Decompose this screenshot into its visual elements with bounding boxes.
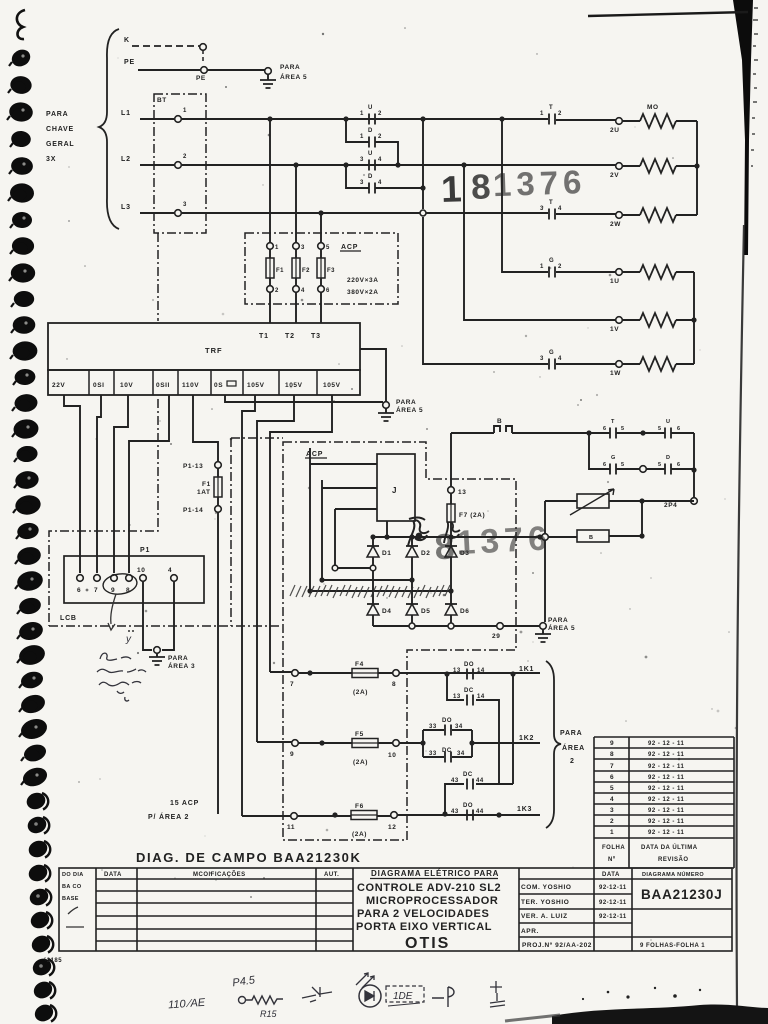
svg-text:10: 10 — [388, 752, 396, 759]
svg-text:U: U — [368, 105, 373, 111]
svg-text:12: 12 — [388, 824, 396, 831]
label PARA CHAVE GERAL 3X — [46, 111, 75, 163]
terminal 9 — [292, 740, 299, 747]
svg-text:DO: DO — [463, 803, 473, 809]
svg-text:4: 4 — [378, 157, 382, 163]
wire TRF right to ground — [360, 349, 386, 402]
terminal 1V — [616, 317, 623, 324]
svg-text:B: B — [497, 418, 502, 425]
contact 43 DC 44 — [467, 779, 473, 790]
resistor 2U — [622, 120, 697, 122]
border LCB region (dash-dot) — [157, 233, 159, 321]
svg-text:(2A): (2A) — [352, 831, 367, 838]
terminal 2U — [616, 118, 623, 125]
contact K pin — [200, 44, 207, 51]
terminal 12 — [391, 812, 398, 819]
connector P1 box — [64, 556, 204, 603]
svg-text:DATA: DATA — [602, 872, 620, 878]
svg-text:33: 33 — [429, 724, 437, 730]
contactor contact 1D2 — [369, 137, 375, 148]
svg-text:5: 5 — [326, 245, 330, 251]
svg-text:DC: DC — [442, 748, 452, 754]
fuse F2 — [292, 243, 310, 323]
wire D3 column — [450, 537, 452, 626]
svg-text:CONTROLE ADV-210 SL2: CONTROLE ADV-210 SL2 — [357, 882, 501, 894]
svg-text:MCOIFICAÇÕES: MCOIFICAÇÕES — [193, 871, 246, 878]
contactor contact 3U4 — [369, 160, 375, 171]
relay box J — [377, 454, 415, 521]
handwritten P symbol — [432, 987, 454, 1007]
fuse F3 — [317, 243, 335, 323]
svg-text:8: 8 — [433, 525, 455, 567]
svg-text:DO DIA: DO DIA — [62, 872, 84, 878]
svg-text:5: 5 — [610, 785, 614, 792]
svg-text:9: 9 — [610, 740, 614, 747]
svg-text:D: D — [666, 455, 670, 461]
svg-text:1376: 1376 — [455, 519, 552, 562]
svg-text:BA CO: BA CO — [62, 884, 82, 890]
svg-text:D5: D5 — [421, 608, 431, 615]
terminal tap left — [332, 565, 338, 571]
resistor 2V — [622, 165, 697, 167]
svg-text:92 - 12 - 11: 92 - 12 - 11 — [648, 819, 685, 825]
svg-text:PARA: PARA — [560, 730, 583, 737]
svg-text:44: 44 — [476, 809, 484, 815]
terminal 8 — [393, 670, 400, 677]
wire L3 to fuse F3 — [320, 213, 322, 243]
pin P1-9 — [111, 575, 118, 582]
svg-text:92 - 12 - 11: 92 - 12 - 11 — [648, 797, 685, 803]
svg-text:VER. A. LUIZ: VER. A. LUIZ — [521, 913, 568, 920]
svg-text:3: 3 — [301, 245, 305, 251]
parallel contact group 33DO34 / 33DC34 — [423, 730, 472, 757]
svg-text:PE: PE — [196, 75, 206, 82]
svg-text:1376: 1376 — [492, 163, 587, 203]
pin P1-4 — [171, 575, 178, 582]
svg-text:T2: T2 — [285, 333, 295, 340]
terminal tap D1 — [370, 565, 376, 571]
terminal bus connector — [542, 534, 549, 541]
scan noise specks — [66, 27, 737, 941]
node L2 fuse tap — [293, 162, 298, 167]
svg-text:92 - 12 - 11: 92 - 12 - 11 — [648, 775, 685, 781]
node 3D4-end — [420, 185, 425, 190]
wire tap to D1 — [338, 567, 370, 569]
svg-text:APR.: APR. — [521, 928, 539, 935]
wire B line — [451, 432, 588, 434]
terminal 2V — [616, 163, 623, 170]
terminal 13 — [448, 487, 455, 494]
svg-text:33: 33 — [429, 751, 437, 757]
svg-text:15 ACP: 15 ACP — [170, 800, 199, 807]
svg-text:29: 29 — [492, 633, 500, 640]
svg-text:1AT: 1AT — [197, 489, 211, 496]
svg-text:1: 1 — [440, 168, 462, 210]
svg-text:6: 6 — [677, 462, 680, 468]
node L2-d — [395, 162, 400, 167]
svg-text:2: 2 — [570, 758, 575, 765]
svg-text:D: D — [368, 174, 373, 180]
svg-text:220V×3A: 220V×3A — [347, 277, 379, 284]
svg-text:9 FOLHAS-FOLHA 1: 9 FOLHAS-FOLHA 1 — [640, 943, 705, 949]
svg-text:F2: F2 — [302, 268, 310, 274]
contact 13 DO 14 row7 — [467, 669, 473, 680]
wire tap to D3 (hatched) — [310, 590, 451, 592]
wire row 7 — [270, 672, 540, 673]
crossing hop on L3 — [420, 210, 426, 216]
svg-text:T: T — [549, 105, 553, 111]
node bus right — [537, 534, 542, 539]
svg-text:3: 3 — [540, 206, 544, 212]
svg-text:2: 2 — [610, 818, 614, 825]
svg-text:6: 6 — [77, 587, 81, 594]
handwritten circled diode — [359, 985, 381, 1007]
wire row 11 — [242, 815, 540, 816]
wire L2 to fuse F2 — [295, 165, 297, 243]
terminal bus D5 — [409, 623, 415, 629]
svg-text:R15: R15 — [260, 1009, 278, 1019]
ground — [149, 657, 165, 665]
node 1V-end — [691, 317, 696, 322]
handwritten dashes and arrow — [302, 987, 332, 1002]
svg-text:1DE: 1DE — [393, 991, 413, 1002]
svg-text:L1: L1 — [121, 110, 131, 117]
wire branch 3D4 — [346, 165, 423, 188]
svg-text:6: 6 — [677, 426, 680, 432]
svg-text:22V: 22V — [52, 382, 65, 389]
svg-text:DATA: DATA — [104, 872, 122, 878]
svg-text:1K1: 1K1 — [519, 666, 534, 673]
svg-text:13: 13 — [453, 694, 461, 700]
svg-text:1: 1 — [540, 111, 544, 117]
svg-text:PARA: PARA — [396, 399, 416, 406]
bottom right dark smudge — [552, 1005, 768, 1024]
contactor contact 1U2 — [369, 114, 375, 125]
stamp 81376 lower — [433, 519, 553, 567]
resistor 1U — [622, 271, 694, 273]
svg-text:8: 8 — [470, 167, 491, 207]
svg-text:1K3: 1K3 — [517, 806, 532, 813]
breaker box BT (dash-dot) — [154, 94, 206, 233]
svg-text:92 - 12 - 11: 92 - 12 - 11 — [648, 808, 685, 814]
contact 43 DO 44 row11 — [467, 810, 473, 821]
svg-text:y: y — [125, 634, 132, 645]
TRF tap dividers — [89, 370, 317, 395]
svg-text:PARA: PARA — [280, 64, 300, 71]
svg-text:PORTA EIXO VERTICAL: PORTA EIXO VERTICAL — [356, 921, 492, 933]
wire branch 1D2 — [346, 119, 398, 165]
resistor 1V — [622, 319, 694, 321]
wire varistor bus down to ground — [544, 540, 546, 622]
svg-text:P1-14: P1-14 — [183, 507, 203, 514]
svg-text:5: 5 — [621, 462, 624, 468]
svg-text:OTIS: OTIS — [405, 935, 450, 952]
diode D6 — [445, 604, 470, 615]
terminal 7 — [292, 670, 299, 677]
wire K (dashed) — [132, 45, 200, 47]
svg-text:U: U — [666, 419, 670, 425]
breaker pole 1 — [175, 116, 182, 123]
svg-text:3: 3 — [360, 180, 364, 186]
svg-text:F1: F1 — [276, 268, 284, 274]
ground — [260, 80, 276, 88]
contact G 6-5 — [610, 464, 616, 475]
svg-text:44: 44 — [476, 778, 484, 784]
diode D1 — [367, 546, 392, 557]
svg-text:P1: P1 — [140, 547, 150, 554]
svg-text:92-12-11: 92-12-11 — [599, 900, 627, 906]
wire row7 DC branch — [447, 674, 499, 784]
terminal 2W — [616, 212, 623, 219]
wire F1AT down to area 2 — [217, 512, 219, 814]
handwritten circle terminal — [239, 997, 246, 1004]
svg-text:105V: 105V — [285, 382, 303, 389]
node bus D2 — [409, 534, 414, 539]
svg-text:U: U — [368, 151, 373, 157]
svg-text:F1: F1 — [202, 481, 211, 488]
svg-text:14: 14 — [477, 694, 485, 700]
terminal 1U — [616, 269, 623, 276]
svg-text:1: 1 — [360, 134, 364, 140]
svg-text:G: G — [549, 350, 554, 356]
svg-text:13: 13 — [458, 489, 466, 496]
wire tap to D2 — [322, 579, 412, 581]
svg-text:92-12-11: 92-12-11 — [599, 914, 627, 920]
pin P1-6 — [77, 575, 84, 582]
node D row end — [691, 467, 696, 472]
svg-text:BASE: BASE — [62, 896, 79, 902]
wire L1 to 1W row — [423, 119, 548, 364]
handwritten plus / cap — [490, 981, 505, 1007]
terminal TRF ground — [383, 402, 390, 409]
wire pin4 to ground — [162, 582, 174, 650]
svg-text:LCB: LCB — [60, 615, 77, 622]
svg-text:14: 14 — [477, 668, 485, 674]
node parallel left — [420, 740, 425, 745]
pin P1-8 — [126, 575, 133, 582]
wire varistor right drop — [641, 501, 643, 536]
svg-text:0SII: 0SII — [156, 382, 170, 389]
svg-text:F5: F5 — [355, 731, 364, 738]
varistor box — [577, 494, 609, 508]
svg-text:DIAGRAMA ELÉTRICO PARA: DIAGRAMA ELÉTRICO PARA — [371, 869, 499, 878]
resistor 1W — [622, 363, 694, 365]
svg-text:4: 4 — [378, 180, 382, 186]
spiral binding holes — [7, 10, 56, 1024]
handwriting y-dot — [125, 630, 134, 645]
node between T and U — [640, 430, 645, 435]
svg-text:DO: DO — [442, 718, 452, 724]
contact T 6-5 — [589, 432, 643, 434]
svg-text:1: 1 — [610, 829, 614, 836]
svg-text:92 - 12 - 11: 92 - 12 - 11 — [648, 741, 685, 747]
wire 1U row — [556, 271, 616, 273]
svg-text:43: 43 — [451, 809, 459, 815]
terminal bus D6 — [448, 623, 454, 629]
svg-text:BAA21230J: BAA21230J — [641, 887, 723, 902]
svg-text:FOLHA: FOLHA — [602, 845, 625, 851]
svg-text:F4: F4 — [355, 661, 364, 668]
breaker element B — [494, 426, 512, 433]
brace para chave geral 3x — [99, 29, 119, 229]
svg-text:1: 1 — [540, 264, 544, 270]
node L1-a — [343, 116, 348, 121]
wire 43DC44 branch — [445, 784, 513, 814]
svg-text:(2A): (2A) — [353, 689, 368, 696]
wire motor bus 1 — [693, 272, 695, 364]
svg-text:PROJ.Nº 92/AA-202: PROJ.Nº 92/AA-202 — [522, 942, 592, 949]
node B-T junction — [586, 430, 591, 435]
svg-text:D6: D6 — [460, 608, 470, 615]
node 1K1 — [510, 671, 515, 676]
svg-text:G: G — [549, 258, 554, 264]
svg-text:Nº: Nº — [608, 857, 616, 863]
ground 29 para area 5 — [542, 629, 544, 634]
border ACP region (dash-dot) — [283, 442, 516, 840]
node tap3 left — [307, 588, 312, 593]
terminal 10 — [393, 740, 400, 747]
svg-text:G: G — [611, 455, 616, 461]
node L3 fuse tap — [318, 210, 323, 215]
svg-text:2U: 2U — [610, 127, 620, 134]
border LCB right (dash-dot) — [230, 438, 232, 626]
svg-text:4: 4 — [168, 567, 172, 574]
svg-text:TER. YOSHIO: TER. YOSHIO — [521, 899, 569, 906]
svg-text:5: 5 — [658, 462, 661, 468]
node row11 right branch — [496, 812, 501, 817]
node b-box right — [639, 533, 644, 538]
wire tap 0SII to P1-8 — [129, 395, 169, 573]
wire L2 to 1V row — [464, 165, 616, 320]
svg-text:5: 5 — [658, 426, 661, 432]
wire tap 105V-1 to row 11 — [242, 395, 255, 816]
contact 1T2 — [549, 114, 555, 125]
svg-text:MICROPROCESSADOR: MICROPROCESSADOR — [366, 895, 498, 907]
contact U 5-6 — [643, 432, 694, 434]
svg-text:1: 1 — [275, 245, 279, 251]
svg-text:92 - 12 - 11: 92 - 12 - 11 — [648, 752, 685, 758]
fuse F1 1AT — [217, 468, 219, 477]
fuse panel box ACP (dash-dot) — [245, 233, 398, 304]
handwriting scribble over D3 — [444, 522, 460, 543]
svg-text:T1: T1 — [259, 333, 269, 340]
annotation loop around pins 9-8 — [102, 572, 138, 596]
svg-text:92 - 12 - 11: 92 - 12 - 11 — [648, 764, 685, 770]
handwritten double arrow — [356, 973, 374, 988]
svg-text:D2: D2 — [421, 550, 431, 557]
diode D3 — [445, 546, 470, 557]
svg-text:6: 6 — [603, 462, 606, 468]
wire J bottom stub — [386, 521, 388, 537]
contact 3T4 — [549, 209, 555, 220]
page fold crease line right — [737, 225, 744, 1008]
wire tap 110V to fuse F1AT — [193, 395, 218, 462]
handwritten resistor squiggle — [246, 996, 283, 1004]
wire U/D down to 2P4 — [693, 433, 695, 497]
node row9 feed — [319, 740, 324, 745]
svg-text:3: 3 — [540, 356, 544, 362]
node 2V-end — [694, 163, 699, 168]
terminal between G and D — [640, 466, 647, 473]
wire motor bus 2 — [696, 121, 698, 215]
svg-text:P/ ÁREA 2: P/ ÁREA 2 — [148, 812, 189, 821]
svg-text:6: 6 — [603, 426, 606, 432]
svg-text:MO: MO — [647, 104, 659, 111]
svg-text:10: 10 — [137, 567, 145, 574]
svg-text:6: 6 — [610, 774, 614, 781]
ground — [535, 634, 551, 642]
svg-text:CHAVE: CHAVE — [46, 126, 74, 133]
svg-text:1: 1 — [360, 111, 364, 117]
svg-text:DIAGRAMA NÚMERO: DIAGRAMA NÚMERO — [642, 871, 704, 878]
pin P1-10 — [140, 575, 147, 582]
svg-text:34: 34 — [455, 724, 463, 730]
stamp 81376 upper — [440, 163, 587, 210]
svg-text:PARA 2 VELOCIDADES: PARA 2 VELOCIDADES — [357, 908, 489, 920]
svg-text:380V×2A: 380V×2A — [347, 289, 379, 296]
svg-text:P1-13: P1-13 — [183, 463, 203, 470]
svg-text:43: 43 — [451, 778, 459, 784]
svg-text:8: 8 — [610, 751, 614, 758]
svg-text:ÁREA: ÁREA — [562, 743, 585, 752]
wire diode top bus — [373, 536, 577, 538]
wire pin10 to ground — [143, 582, 152, 650]
node tap2 left — [319, 577, 324, 582]
svg-text:0S: 0S — [214, 382, 223, 389]
terminal 2P4 — [691, 498, 698, 505]
svg-text:PARA: PARA — [548, 617, 568, 624]
svg-text:8: 8 — [392, 681, 396, 688]
svg-text:110V: 110V — [182, 382, 199, 389]
fuse F7 2A — [450, 433, 452, 504]
title block grid — [59, 868, 732, 951]
svg-text:2: 2 — [183, 154, 187, 160]
svg-text:10V: 10V — [120, 382, 133, 389]
svg-text:F7 (2A): F7 (2A) — [459, 512, 485, 519]
node L1-c — [499, 116, 504, 121]
svg-text:COM. YOSHIO: COM. YOSHIO — [521, 884, 572, 891]
svg-text:F6: F6 — [355, 803, 364, 810]
node bus D1 — [370, 534, 375, 539]
svg-text:2P4: 2P4 — [664, 502, 677, 509]
svg-text:T: T — [611, 419, 615, 425]
svg-text:7: 7 — [290, 681, 294, 688]
wire diode bottom bus to 29 — [373, 625, 539, 627]
svg-text:ÁREA 5: ÁREA 5 — [396, 405, 423, 414]
wire tap 10V to P1-9 — [114, 395, 128, 573]
ground PE para area 5 — [267, 74, 269, 80]
svg-text:13: 13 — [453, 668, 461, 674]
contact PE pin — [201, 67, 208, 74]
svg-text:TRF: TRF — [205, 346, 223, 355]
svg-text:ÁREA 5: ÁREA 5 — [280, 72, 307, 81]
ground TRF para area 5 — [385, 408, 387, 413]
wire tap 105V-3 to row 7 — [270, 395, 332, 672]
resistor 2W — [622, 214, 697, 216]
box B lower — [577, 530, 609, 542]
svg-text:1V: 1V — [610, 326, 619, 333]
svg-text:ACP: ACP — [306, 451, 323, 458]
svg-text:34: 34 — [457, 751, 465, 757]
wire K drop (dashed) — [202, 50, 204, 64]
node L1 fuse tap — [267, 116, 272, 121]
svg-text:(2A): (2A) — [353, 759, 368, 766]
svg-text:6: 6 — [326, 288, 330, 294]
fuse F1 — [266, 243, 284, 323]
wire varistor row — [545, 500, 694, 502]
contact 3G4 — [549, 359, 555, 370]
contact 13 DC 14 — [467, 695, 473, 706]
